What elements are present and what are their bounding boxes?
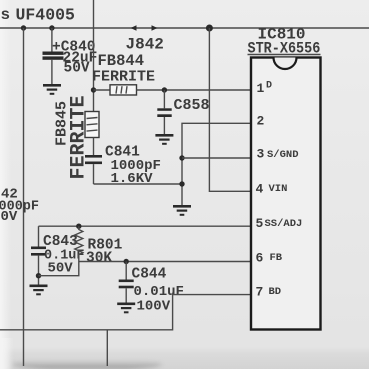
node C841 junction: [179, 181, 184, 186]
svg-text:1: 1: [257, 81, 265, 96]
svg-text:STR-X6556: STR-X6556: [248, 41, 321, 58]
svg-text:J842: J842: [126, 36, 164, 54]
svg-text:FERRITE: FERRITE: [68, 95, 91, 179]
svg-text:BD: BD: [269, 286, 282, 298]
ground C858: [155, 134, 173, 137]
svg-text:50V: 50V: [48, 261, 74, 277]
svg-text:VIN: VIN: [269, 183, 288, 195]
wire left vertical bus: [23, 28, 25, 366]
node C844 junction: [124, 259, 129, 264]
wire pin2 net: [182, 123, 251, 205]
svg-text:4: 4: [256, 182, 264, 197]
IC U810 (IC810 STR-X6556) body: [251, 58, 321, 330]
svg-text:7: 7: [256, 285, 264, 300]
wire pin6 FB net: [79, 261, 251, 263]
wire pin7 BD net: [0, 295, 251, 330]
ground S/GND node: [173, 205, 191, 208]
svg-text:D: D: [266, 81, 272, 92]
node R801 top junction: [76, 224, 81, 229]
wire snubber vertical: [93, 0, 95, 112]
node pin3 junction: [179, 155, 184, 160]
node C843 bottom junction: [36, 273, 41, 278]
capacitor C841: [93, 138, 95, 156]
svg-text:100V: 100V: [137, 299, 171, 315]
node rail-VIN junction: [206, 25, 213, 32]
svg-text:FB: FB: [270, 252, 283, 264]
wire top rail: [0, 27, 369, 29]
svg-text:FB844: FB844: [98, 52, 145, 70]
svg-text:C844: C844: [132, 267, 167, 283]
svg-text:5: 5: [256, 216, 264, 231]
ferrite FB845: [85, 112, 99, 138]
wire C843 to R801 bottom: [39, 258, 79, 276]
capacitor C844: [125, 262, 127, 280]
capacitor C843: [38, 226, 40, 246]
svg-text:30K: 30K: [86, 251, 112, 267]
svg-text:3: 3: [257, 147, 265, 162]
node rail-left junction: [21, 25, 26, 30]
node rail-C840 junction: [49, 25, 54, 30]
resistor R801: [75, 226, 83, 258]
svg-text:S/GND: S/GND: [267, 149, 299, 161]
ground C844: [117, 303, 135, 306]
ground C840: [43, 84, 61, 87]
wire pin3 net: [182, 157, 251, 159]
wire pin1 net: [137, 89, 252, 91]
ferrite FB844: [94, 89, 111, 91]
node FB844/FB845 junction: [91, 87, 96, 92]
svg-text:50V: 50V: [64, 61, 90, 77]
capacitor C858: [163, 90, 165, 108]
wire C841 to ground node: [94, 183, 183, 185]
svg-text:FERRITE: FERRITE: [92, 69, 155, 86]
ground C843: [30, 285, 48, 288]
svg-text:SS/ADJ: SS/ADJ: [265, 218, 303, 230]
wire pin5 SS/ADJ net: [39, 225, 252, 227]
node C858 junction: [162, 87, 167, 92]
svg-text:s: s: [1, 6, 11, 24]
svg-text:0V: 0V: [1, 209, 18, 225]
svg-text:UF4005: UF4005: [16, 6, 76, 25]
svg-text:6: 6: [256, 251, 264, 266]
jumper J842: [131, 25, 137, 31]
svg-text:C858: C858: [174, 97, 210, 114]
wire pin4 VIN net: [209, 28, 251, 191]
wire bottom stub: [106, 330, 108, 366]
capacitor C840: [51, 28, 53, 52]
svg-text:2: 2: [257, 114, 265, 129]
